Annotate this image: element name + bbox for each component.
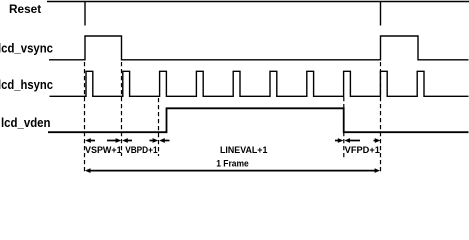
- dimension VFPD+1 right arrow: [374, 140, 377, 142]
- node Reset tick 1: [84, 2, 86, 26]
- svg-text:LINEVAL+1: LINEVAL+1: [220, 145, 267, 155]
- svg-text:lcd_vsync: lcd_vsync: [0, 42, 53, 56]
- svg-text:lcd_vden: lcd_vden: [1, 116, 51, 130]
- svg-text:VBPD+1: VBPD+1: [125, 145, 157, 155]
- svg-text:lcd_hsync: lcd_hsync: [0, 78, 53, 92]
- svg-text:VSPW+1: VSPW+1: [85, 145, 122, 155]
- wire lcd_vsync waveform: [49, 36, 469, 60]
- svg-text:VFPD+1: VFPD+1: [345, 145, 380, 155]
- dimension 1 Frame line: [90, 170, 375, 172]
- node Reset tick 2: [380, 2, 382, 26]
- guide dashed line at x=84.5: [84, 62, 86, 174]
- wire lcd_vden waveform: [48, 108, 469, 132]
- dimension VSPW+1 right arrow: [107, 140, 116, 142]
- dimension LINEVAL+1 right arrow: [335, 140, 339, 142]
- dimension VBPD+1 left arrow: [122, 138, 128, 143]
- svg-text:1 Frame: 1 Frame: [216, 158, 249, 168]
- dimension VFPD+1 left arrow: [344, 138, 350, 143]
- guide dashed line at x=343.8: [343, 97, 345, 158]
- wire Reset line: [47, 1, 469, 3]
- guide dashed line at x=380.5: [380, 62, 382, 174]
- dimension VBPD+1 right arrow: [150, 140, 154, 142]
- wire lcd_hsync waveform: [50, 71, 469, 96]
- guide dashed line at x=121.5: [121, 62, 123, 156]
- guide dashed line at x=158.5: [158, 98, 160, 156]
- svg-text:Reset: Reset: [9, 2, 41, 16]
- dimension LINEVAL+1 left arrow: [159, 138, 165, 143]
- dimension VSPW+1 left arrow: [85, 138, 91, 143]
